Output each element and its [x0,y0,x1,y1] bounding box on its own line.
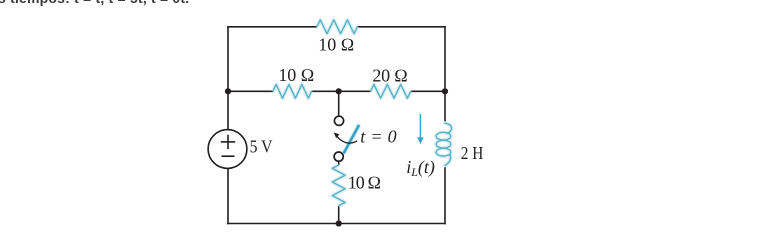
inductor L coil 2H [436,123,451,165]
switch terminal upper circle [334,116,343,125]
switch terminal lower circle [334,152,343,161]
svg-text:10 Ω: 10 Ω [278,65,314,85]
svg-text:iL(t): iL(t) [406,157,435,179]
junction node bottom [336,220,342,226]
wire right vertical upper [444,26,446,124]
svg-text:10 Ω: 10 Ω [348,172,382,192]
wire top-right horizontal [358,26,446,28]
minus sign [222,155,235,157]
wire bottom horizontal [227,223,446,225]
resistor 10ohm middle [273,84,312,98]
wire switch lower stub [338,161,340,165]
plus sign [221,135,235,157]
switch motion arc [337,137,357,144]
clipped caption text [0,0,189,6]
junction node middle [336,88,342,94]
wire resistor-to-bottom stub [338,206,340,224]
switch arrowhead [334,133,340,139]
svg-text:2 H: 2 H [461,143,484,163]
wire switch upper stub [338,91,340,116]
resistor 10ohm top [317,20,358,34]
junction node left [225,88,231,94]
wire middle left segment [228,90,273,92]
wire middle right segment [411,90,445,92]
wire middle center segment [312,90,371,92]
svg-text:t = 0: t = 0 [360,126,396,146]
svg-text:5 V: 5 V [250,137,273,157]
wire left vertical upper [227,26,229,130]
resistor 10ohm vertical [332,165,345,206]
junction node right [442,88,448,94]
resistor 20ohm middle [371,84,411,98]
switch blade [344,125,360,154]
current arrow iL [417,114,423,144]
wire left vertical lower [227,168,229,224]
wire right vertical lower [444,165,446,224]
svg-text:20 Ω: 20 Ω [372,65,408,85]
voltage source V1 circle [208,130,247,169]
svg-text:10 Ω: 10 Ω [318,34,354,54]
wire top-left horizontal [227,26,317,28]
